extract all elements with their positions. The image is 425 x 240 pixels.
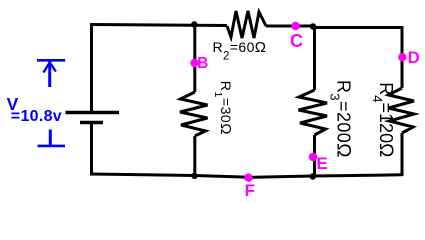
battery V long plate bbox=[66, 111, 120, 115]
resistor R3 bbox=[299, 90, 328, 135]
node B dot bbox=[190, 59, 198, 67]
wire bottom bbox=[90, 174, 402, 177]
svg-text:C: C bbox=[290, 31, 303, 51]
battery voltage tack symbol bbox=[38, 130, 66, 146]
svg-text:=10.8v: =10.8v bbox=[11, 108, 62, 125]
wire left vertical upper bbox=[90, 24, 93, 112]
svg-text:R1=30Ω: R1=30Ω bbox=[212, 81, 234, 135]
svg-text:R4=120Ω: R4=120Ω bbox=[370, 82, 396, 157]
wire top middle to node C and junction bbox=[266, 25, 314, 28]
wire top left horizontal bbox=[90, 25, 227, 26]
junction dot bottom of R1 branch bbox=[191, 173, 197, 179]
node E dot bbox=[309, 153, 317, 161]
junction dot top of R1 branch bbox=[191, 21, 197, 27]
node F dot bbox=[244, 174, 252, 182]
svg-text:B: B bbox=[197, 55, 208, 72]
wire R1 branch lower bbox=[193, 136, 196, 177]
node C dot bbox=[291, 22, 299, 30]
resistor R2 bbox=[227, 11, 266, 38]
wire R3 branch lower bbox=[313, 135, 316, 177]
resistor R1 bbox=[180, 92, 208, 136]
wire R1 branch upper bbox=[193, 24, 196, 93]
junction dot bottom of R3 branch bbox=[310, 173, 316, 179]
svg-text:R2=60Ω: R2=60Ω bbox=[213, 39, 267, 63]
wire right vertical lower bbox=[401, 133, 404, 176]
svg-text:R3=200Ω: R3=200Ω bbox=[328, 80, 354, 158]
wire R3 branch upper bbox=[313, 27, 316, 91]
wire left vertical lower bbox=[90, 123, 93, 176]
node D dot bbox=[398, 53, 406, 61]
battery V short plate bbox=[80, 121, 103, 125]
svg-text:E: E bbox=[316, 154, 327, 173]
wire top right segment bbox=[313, 26, 402, 29]
svg-text:F: F bbox=[245, 181, 255, 198]
wire right vertical upper bbox=[401, 26, 404, 88]
svg-text:D: D bbox=[408, 49, 420, 67]
battery voltage arrow symbol bbox=[37, 60, 65, 87]
resistor R4 bbox=[389, 88, 415, 133]
junction dot top of R3 branch bbox=[310, 23, 316, 29]
